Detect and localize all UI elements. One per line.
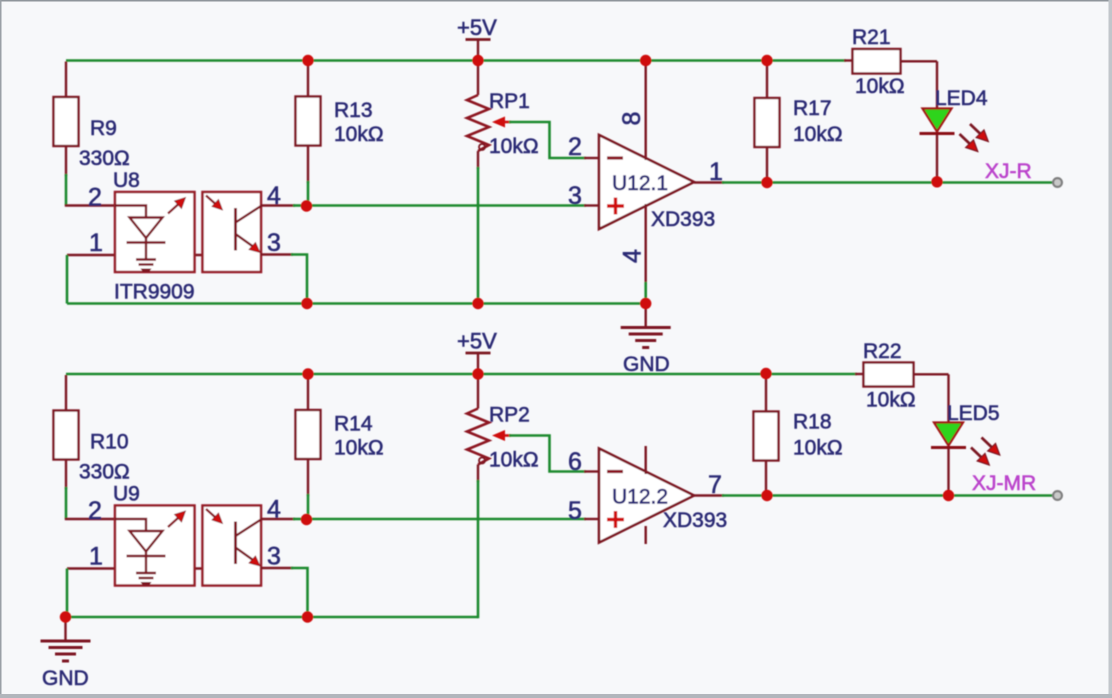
svg-text:1: 1 [709, 158, 723, 186]
svg-text:R14: R14 [334, 413, 373, 436]
wire down to LED5 [947, 374, 949, 423]
wire output to R17 junction [722, 181, 767, 184]
svg-text:5: 5 [568, 497, 582, 525]
svg-text:6: 6 [568, 448, 582, 476]
pin lead RP1 top [477, 61, 479, 96]
wire U8 pin4 to junction [293, 204, 307, 207]
svg-text:330Ω: 330Ω [79, 147, 130, 170]
svg-text:2: 2 [88, 497, 102, 525]
pin lead R18 bottom [765, 460, 767, 496]
svg-text:1: 1 [89, 543, 103, 571]
optocoupler U8 LED-side box [115, 192, 195, 272]
pin lead R13 top [307, 61, 309, 97]
pin lead op-amp U12.1 output pin1 [694, 181, 724, 183]
potentiometer RP2 zigzag [467, 409, 489, 465]
svg-text:+5V: +5V [457, 15, 497, 40]
wire rail to R21 [844, 59, 853, 61]
wire left column upper (section 2) [65, 375, 67, 411]
svg-text:10kΩ: 10kΩ [866, 389, 916, 412]
pin lead R14 bottom [307, 459, 309, 496]
optocoupler U9 receive arrow [206, 509, 216, 518]
wire R10 to U9 pin2 [65, 487, 68, 519]
svg-text:R10: R10 [90, 431, 129, 454]
LED LED5 light arrows [982, 438, 993, 449]
pin lead U8 pin3 [261, 253, 293, 255]
svg-text:10kΩ: 10kΩ [793, 123, 843, 146]
wire output junction to LED4 junction [767, 181, 937, 184]
potentiometer RP2 bottom marker circle [479, 458, 485, 464]
svg-text:LED4: LED4 [935, 87, 988, 110]
pin lead op-amp U12.2 output pin7 [694, 494, 724, 496]
op-amp U12.2 triangle [599, 449, 694, 543]
wire U8 pin1 down to ground rail [66, 255, 69, 304]
pin lead R14 top [307, 374, 309, 410]
optocoupler U9 transistor-side box [203, 506, 262, 586]
wire output to R18 junction [722, 494, 767, 497]
op-amp U12.1 triangle [599, 135, 694, 229]
LED LED5 cathode bar [931, 446, 966, 449]
LED LED4 triangle [923, 109, 952, 132]
wire pin4 to ground rail [644, 282, 647, 304]
svg-text:RP2: RP2 [489, 404, 530, 427]
potentiometer RP1 wiper arrow [492, 117, 505, 128]
wire RP2 wiper to op-amp pin6 [509, 436, 586, 472]
svg-text:1: 1 [89, 229, 103, 257]
optocoupler U8 receive arrow [206, 196, 216, 205]
wire pin4 junction to op-amp pin5 [307, 518, 587, 521]
op-amp U12.2 non-inverting input marker [607, 518, 624, 521]
terminal pad XJ-MR [1053, 491, 1062, 500]
optocoupler U8 phototransistor [234, 208, 237, 251]
svg-text:R18: R18 [793, 411, 832, 434]
svg-text:10kΩ: 10kΩ [334, 123, 384, 146]
svg-text:10kΩ: 10kΩ [855, 75, 905, 98]
junction dots overlay [302, 55, 313, 66]
pin lead RP2 bottom [477, 465, 479, 483]
svg-text:10kΩ: 10kΩ [489, 135, 539, 158]
svg-text:330Ω: 330Ω [79, 461, 130, 484]
optocoupler U9 internal LED diode [130, 531, 163, 552]
optocoupler U8 LED reflector bars [136, 258, 156, 261]
pin lead U8 pin4 [261, 204, 295, 206]
svg-text:U12.1: U12.1 [612, 172, 668, 195]
svg-text:10kΩ: 10kΩ [489, 449, 539, 472]
pin lead R22 right [914, 373, 949, 375]
pin lead op-amp U12.2 pin6 [584, 470, 599, 472]
pin lead R17 top [766, 61, 768, 99]
pin 8 wire op-amp U12.1 [645, 61, 647, 161]
pin 4 wire op-amp U12.1 [645, 204, 647, 284]
svg-text:3: 3 [568, 182, 582, 210]
wire left column upper [65, 62, 67, 98]
resistor R13 body [296, 97, 321, 146]
resistor R14 body [296, 410, 321, 459]
svg-text:7: 7 [708, 471, 722, 499]
ground symbol GND2 [64, 617, 66, 640]
wire LED5 junction to terminal XJ-MR [949, 494, 1054, 497]
svg-text:2: 2 [568, 133, 582, 161]
wire rail to R22 [855, 373, 864, 375]
svg-text:XD393: XD393 [663, 509, 727, 532]
svg-text:4: 4 [619, 249, 647, 263]
power +5V symbol PWR2 [466, 352, 491, 355]
optocoupler U8 emit arrow [168, 205, 178, 214]
svg-text:R17: R17 [793, 97, 832, 120]
svg-text:U12.2: U12.2 [612, 486, 668, 509]
wire U9 pin4 to junction [293, 518, 307, 521]
optocoupler U9 LED-side box [115, 506, 195, 586]
svg-text:10kΩ: 10kΩ [793, 437, 843, 460]
optocoupler U8 internal anode wire [115, 206, 146, 218]
pin 8 stub op-amp U12.2 [645, 446, 647, 474]
svg-text:10kΩ: 10kΩ [334, 437, 384, 460]
pin lead R10 bottom [65, 460, 67, 490]
wire R9 to U8 pin2 [65, 174, 68, 206]
wire U9 pin1 horizontal [67, 567, 203, 569]
svg-text:R21: R21 [852, 26, 891, 49]
pin lead U8 pin2 [65, 204, 115, 206]
wire RP1 wiper to op-amp pin2 [509, 122, 586, 158]
resistor R18 body [754, 412, 779, 461]
potentiometer RP1 zigzag [467, 95, 489, 151]
wire U9 pin1 down to ground [66, 569, 69, 618]
optocoupler U9 phototransistor [234, 522, 237, 565]
wire top +5V rail (section 2) [66, 373, 857, 376]
svg-text:XJ-R: XJ-R [985, 160, 1032, 183]
optocoupler U9 emit arrow [168, 518, 178, 527]
resistor R10 body [54, 411, 79, 460]
pin lead R13 bottom [307, 146, 309, 184]
svg-text:RP1: RP1 [489, 90, 530, 113]
power +5V symbol PWR1 [466, 38, 491, 41]
pin lead R9 bottom [65, 146, 67, 176]
optocoupler U8 transistor-side box [203, 192, 262, 272]
pin lead op-amp U12.1 pin3 [584, 204, 599, 206]
pin lead LED4 bottom [936, 135, 938, 183]
wire down to LED4 [936, 61, 938, 109]
pin lead U9 pin4 [261, 518, 295, 520]
pin lead op-amp U12.2 pin5 [584, 518, 599, 520]
LED LED4 cathode bar [920, 132, 955, 135]
op-amp U12.2 inverting input marker [607, 470, 623, 473]
pin lead U9 pin2 [65, 518, 115, 520]
resistor R17 body [755, 98, 780, 147]
wire pin4 junction to op-amp pin3 [307, 204, 587, 207]
svg-text:2: 2 [88, 184, 102, 212]
optocoupler U9 internal anode wire [115, 519, 146, 531]
svg-text:XD393: XD393 [651, 208, 715, 231]
wire ground rail (section 2) [66, 616, 479, 619]
op-amp U12.1 non-inverting input marker [607, 204, 624, 207]
pin lead RP2 top [477, 374, 479, 409]
pin lead U9 pin3 [261, 567, 293, 569]
svg-text:U9: U9 [113, 483, 140, 506]
wire output junction to LED5 junction [767, 494, 949, 497]
svg-text:GND: GND [42, 667, 89, 690]
optocoupler U9 LED reflector bars [136, 572, 156, 575]
svg-text:R22: R22 [863, 340, 902, 363]
page border frame [0, 0, 1112, 2]
pin lead R18 top [765, 374, 767, 412]
svg-text:R9: R9 [90, 117, 117, 140]
wire R13 bottom to pin4 junction [307, 181, 310, 206]
svg-text:R13: R13 [334, 99, 373, 122]
wire RP2 bottom to ground rail [477, 480, 480, 618]
potentiometer RP2 wiper arrow [492, 430, 505, 441]
svg-text:U8: U8 [113, 169, 140, 192]
svg-text:4: 4 [267, 182, 281, 210]
optocoupler U8 internal LED diode [130, 218, 163, 239]
resistor R22 body [864, 363, 914, 387]
svg-text:GND: GND [623, 353, 670, 376]
wire R14 bottom to pin4 junction [307, 494, 310, 519]
wire LED4 junction to terminal XJ-R [937, 181, 1053, 184]
wire ground rail (section 1) [67, 302, 646, 305]
svg-text:8: 8 [618, 112, 646, 126]
wire U8 pin3 to ground rail [291, 255, 307, 304]
resistor R9 body [54, 97, 79, 146]
LED LED5 triangle [934, 423, 963, 446]
potentiometer RP1 bottom marker circle [479, 144, 485, 150]
svg-text:4: 4 [267, 496, 281, 524]
pin lead R21 right [901, 60, 938, 62]
svg-text:ITR9909: ITR9909 [114, 281, 195, 304]
op-amp U12.1 inverting input marker [607, 156, 623, 159]
wire U8 pin1 horizontal [67, 254, 203, 256]
pin lead RP1 bottom [477, 151, 479, 169]
wire U9 pin3 to ground rail [291, 568, 308, 617]
svg-text:+5V: +5V [457, 329, 497, 354]
pin lead op-amp U12.1 pin2 [584, 157, 599, 159]
wire top +5V rail (section 1) [66, 59, 846, 62]
pin lead R17 bottom [766, 147, 768, 183]
ground symbol GND1 [645, 304, 647, 327]
wire RP1 bottom to ground rail [477, 167, 480, 304]
LED LED4 light arrows [970, 124, 981, 135]
terminal pad XJ-R [1053, 178, 1062, 187]
svg-text:XJ-MR: XJ-MR [972, 472, 1036, 495]
pin lead LED5 bottom [947, 449, 949, 496]
svg-text:3: 3 [267, 229, 281, 257]
pin 4 stub op-amp U12.2 [645, 526, 647, 544]
svg-text:3: 3 [267, 543, 281, 571]
resistor R21 body [853, 49, 901, 74]
